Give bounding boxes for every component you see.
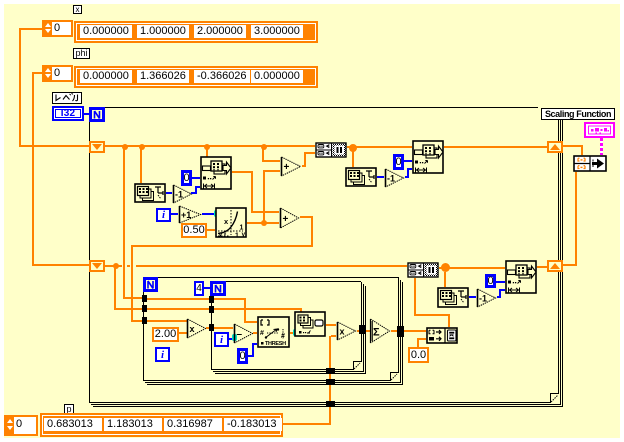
wire i to +1 bbox=[171, 213, 178, 215]
function decrement -1 (top right) bbox=[384, 168, 405, 188]
label x bbox=[73, 5, 82, 14]
wire junction down to array size 3 bbox=[444, 272, 446, 287]
wire j7 down to middle tunnel t2 bbox=[114, 268, 116, 309]
terminal I32 (level control) bbox=[52, 106, 84, 121]
svg-text:–: – bbox=[237, 329, 243, 340]
shift register SR2 left (phi row) bbox=[89, 260, 105, 272]
wire j6 down to array size 2 bbox=[352, 149, 354, 167]
constant 4 (inner loop count) bbox=[194, 281, 204, 296]
wire -1 out to subset2 length input bbox=[405, 176, 409, 178]
array control x : data box bbox=[74, 21, 318, 43]
function subtract bbox=[233, 323, 254, 344]
inner loop right tunnel bbox=[359, 325, 366, 334]
constant 0 (threshold) bbox=[237, 348, 248, 364]
wire index array out to multiply2 bbox=[326, 324, 336, 326]
array control phi : index box bbox=[42, 65, 73, 82]
outer loop top edge bbox=[89, 107, 538, 108]
wire phi-array to left shift register SR2 bbox=[32, 72, 42, 74]
shift register SR1 right bbox=[547, 141, 563, 153]
function decrement -1 (top) bbox=[172, 184, 193, 204]
shift register SR1 left (x row) bbox=[89, 141, 105, 153]
svg-text:+1: +1 bbox=[181, 210, 191, 220]
middle loop resize fold corner bbox=[390, 372, 391, 381]
wire 0 to subset index input bbox=[192, 177, 200, 179]
junction j7 bbox=[113, 263, 119, 269]
wire threshold out bbox=[290, 332, 294, 334]
function array size 1 bbox=[134, 183, 166, 203]
wire SR1 right to bundle bbox=[563, 145, 583, 147]
middle loop count terminal N bbox=[143, 277, 158, 292]
wire sum out through middle tunnel bbox=[391, 330, 398, 332]
wire A down from j1 bbox=[123, 147, 125, 299]
inner loop resize fold corner bbox=[353, 361, 354, 370]
constant 0 (top subset index) bbox=[181, 170, 192, 186]
outer loop resize fold corner bbox=[550, 394, 551, 403]
wire 0 to subset3 index input bbox=[496, 281, 505, 283]
wire array size 2 out (blue) bbox=[377, 176, 384, 178]
array control x : index box bbox=[42, 20, 73, 37]
junction j2 bbox=[139, 144, 145, 150]
wire p array up through tunnels bbox=[283, 423, 330, 425]
wire subset1 out then down to add2 bbox=[232, 171, 253, 173]
wire decimate bottom out to build array bbox=[414, 278, 416, 316]
function multiply2 (inner) bbox=[336, 321, 357, 341]
wire subtract out to threshold bbox=[253, 332, 257, 334]
wire 2.00 to multiply bbox=[179, 332, 187, 334]
wire I32 to N bbox=[84, 113, 89, 115]
coercion dot (power x input) bbox=[214, 210, 219, 217]
inner loop tunnels bbox=[209, 296, 214, 303]
inner loop count terminal N bbox=[210, 281, 226, 296]
function build array bbox=[426, 327, 458, 344]
wire w3 to subtract top input bbox=[214, 327, 233, 329]
svg-text:Σ: Σ bbox=[373, 327, 380, 339]
junction j1 bbox=[122, 144, 128, 150]
tunnel inner loop bottom bbox=[326, 368, 335, 374]
wire multiply2 out to tunnel bbox=[357, 330, 361, 332]
function interleave arrays (top) bbox=[315, 142, 347, 158]
wire main x-array row bbox=[105, 145, 315, 147]
junction j3 bbox=[204, 144, 210, 150]
wire i to subtract bbox=[229, 338, 233, 340]
label phi bbox=[73, 48, 90, 59]
wire 0.50 to power node bbox=[207, 229, 215, 231]
constant 0 (subset2 index) bbox=[393, 154, 404, 170]
outer loop right edge (3 lines) bbox=[558, 108, 559, 394]
svg-text:THRESH: THRESH bbox=[265, 341, 286, 347]
svg-text:y: y bbox=[224, 232, 227, 238]
function decrement -1 (bottom) bbox=[476, 288, 497, 308]
constant 0.0 bbox=[408, 347, 429, 363]
svg-text:#: # bbox=[260, 330, 264, 337]
wire add2 out down-left to middle loop tunnel bbox=[300, 216, 313, 218]
coercion dot (subtract input) bbox=[232, 334, 237, 341]
wire array size 1 out (blue) bbox=[166, 192, 172, 194]
svg-text:x: x bbox=[190, 324, 195, 334]
wire to build array bbox=[404, 330, 426, 332]
wire array size 3 out (blue) bbox=[469, 296, 476, 298]
label Scaling Function bbox=[541, 108, 615, 120]
wire SR2 right to bundle bbox=[563, 264, 577, 266]
wire phi row from SR2 left bbox=[105, 265, 121, 267]
function array size 2 bbox=[345, 167, 377, 187]
terminal i (top) bbox=[156, 208, 171, 222]
wire j2 down to array size 1 bbox=[140, 147, 142, 183]
array control p : index box bbox=[4, 415, 38, 436]
wires middle loop interior bbox=[147, 298, 210, 300]
function multiply (middle loop) bbox=[186, 318, 207, 339]
function increment +1 bbox=[178, 205, 202, 224]
svg-text:+: + bbox=[284, 162, 290, 173]
function array subset 3 bbox=[505, 260, 537, 294]
coercion dot (index array input) bbox=[293, 329, 298, 336]
outer loop count terminal N bbox=[89, 107, 105, 122]
wire tunnel to sum bbox=[366, 330, 370, 332]
function threshold 1d array bbox=[257, 316, 290, 348]
outer loop left edge bbox=[89, 107, 90, 403]
wire -1 out to subset3 length input bbox=[497, 296, 501, 298]
function add array elements (sum) bbox=[369, 318, 391, 344]
label reberu (katakana) bbox=[52, 92, 82, 104]
function add1 bbox=[280, 156, 302, 177]
terminal i (inner loop) bbox=[214, 332, 229, 347]
wire p into multiply2 bottom input bbox=[331, 335, 336, 337]
wire w2 inside inner loop to index array bbox=[214, 308, 302, 310]
constant 0.50 bbox=[181, 223, 207, 238]
function add2 bbox=[279, 207, 300, 229]
junction j4 bbox=[261, 144, 267, 150]
wire 0.0 to build array bbox=[417, 339, 419, 348]
junction j6 (interleave out) bbox=[347, 146, 412, 148]
label p bbox=[64, 404, 74, 415]
wire add1 out to interleave lower input bbox=[302, 165, 306, 167]
constant 2.00 bbox=[152, 327, 179, 342]
svg-text:+: + bbox=[283, 214, 289, 225]
wire dashed magenta bundle to graph bbox=[600, 138, 603, 155]
middle loop right tunnel bbox=[397, 326, 404, 337]
wire decimate out with big junction bbox=[439, 267, 505, 269]
function index array (inner) bbox=[294, 311, 326, 337]
shift register SR2 right bbox=[547, 260, 563, 272]
wire j5 up to add1 bottom input bbox=[263, 170, 265, 222]
function array size 3 bbox=[437, 287, 469, 308]
function array subset 2 bbox=[412, 140, 444, 174]
wire power out with junction j5 bbox=[247, 222, 279, 224]
outer loop bottom edge (3 lines) bbox=[89, 402, 551, 403]
svg-text:-1: -1 bbox=[175, 190, 183, 200]
function bundle bbox=[573, 155, 607, 172]
wire +1 to power node bbox=[202, 213, 215, 215]
wire w1 inside inner loop to threshold bbox=[214, 298, 246, 300]
svg-text:x: x bbox=[340, 327, 345, 337]
wire -1 out to subset length input bbox=[191, 192, 195, 194]
wire x-array to left shift register SR1 bbox=[20, 28, 42, 30]
wire 4 to N bbox=[204, 287, 210, 289]
array control phi : data box bbox=[74, 66, 318, 88]
function decimate array bbox=[407, 262, 439, 278]
wire multiply out to inner tunnel bbox=[206, 327, 214, 329]
svg-text:x: x bbox=[219, 233, 223, 239]
svg-text:y: y bbox=[242, 231, 246, 238]
svg-text:-1: -1 bbox=[387, 174, 395, 184]
tunnel middle loop bottom bbox=[326, 379, 335, 385]
svg-text:-1: -1 bbox=[479, 294, 487, 304]
middle loop tunnels t1 t2 t3 bbox=[142, 295, 147, 302]
array control p : data box bbox=[40, 413, 283, 437]
function power x^y bbox=[215, 207, 247, 238]
xy graph terminal (magenta) bbox=[584, 122, 615, 138]
wire j4 down to add1 top input bbox=[262, 147, 264, 161]
wire subset3 out to SR2 right bbox=[537, 266, 547, 268]
tunnel outer loop bottom bbox=[326, 401, 335, 407]
function array subset 1 bbox=[200, 156, 232, 190]
wire j3 down to array subset 1 bbox=[206, 147, 208, 157]
terminal i (middle loop, unwired) bbox=[155, 347, 170, 362]
wire subset2 out to SR1 right bbox=[444, 146, 547, 148]
wire phi row segments (gaps at crossings) bbox=[119, 265, 122, 267]
wire 0 to subset2 index input bbox=[404, 160, 412, 162]
wire 0 to threshold bottom input bbox=[248, 355, 254, 357]
constant 0 (subset3 index) bbox=[485, 274, 496, 288]
svg-text:1: 1 bbox=[235, 233, 239, 239]
